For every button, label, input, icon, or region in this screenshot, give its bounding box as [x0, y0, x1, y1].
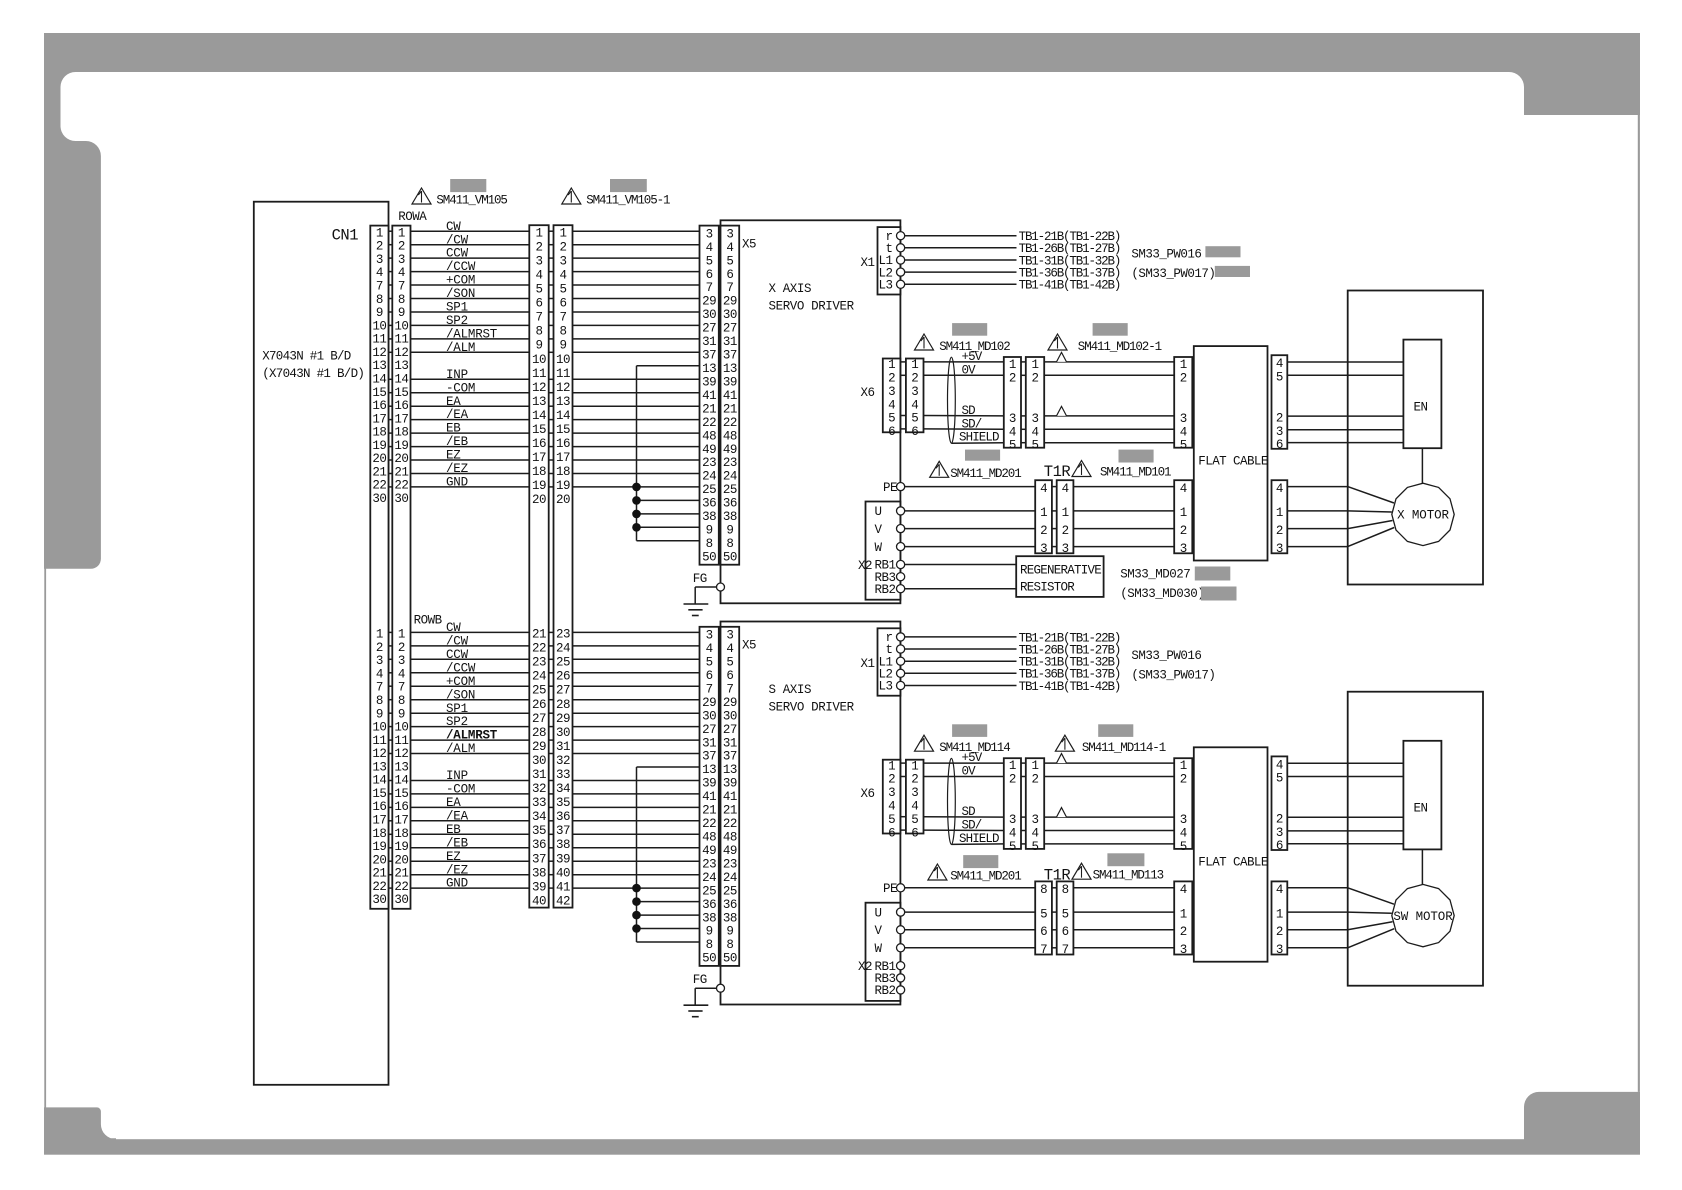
svg-text:5: 5 — [888, 813, 895, 827]
pin RB1 terminal circle — [897, 560, 905, 568]
svg-text:12: 12 — [394, 747, 408, 761]
svg-text:4: 4 — [1180, 482, 1187, 496]
svg-text:8: 8 — [706, 537, 713, 551]
svg-text:5: 5 — [1062, 907, 1069, 921]
cable shield ellipse — [948, 357, 956, 443]
svg-text:9: 9 — [706, 524, 713, 538]
wire flat-cable pin 5 to encoder EN — [1287, 374, 1403, 376]
svg-text:10: 10 — [556, 353, 570, 367]
wire V to T1R-2 — [905, 528, 1036, 530]
wire T1R joint stub pin 5 — [1052, 911, 1057, 913]
connector flat-cable right column, encoder rows (S axis) — [1272, 756, 1288, 853]
junction dot X5-9 tie — [632, 523, 641, 532]
wire -COM (CN1 to X5-41, X axis) — [389, 392, 700, 394]
wire flat-cable pin 4 to encoder EN — [1287, 361, 1403, 363]
svg-text:1: 1 — [888, 358, 895, 372]
wire cable pin 3 to flat-cable column — [1044, 415, 1174, 417]
svg-text:31: 31 — [702, 335, 716, 349]
connector encoder-cable joint plug column (X axis) — [1004, 357, 1021, 453]
svg-text:3: 3 — [911, 786, 918, 800]
wire stub X6-5 — [900, 415, 906, 417]
svg-text:8: 8 — [376, 694, 383, 708]
svg-text:/SON: /SON — [446, 688, 475, 702]
wire T1R pin 2 to flat-cable column — [1073, 528, 1174, 530]
wire cable pin 4 to flat-cable column — [1044, 428, 1174, 430]
svg-text:/CW: /CW — [446, 233, 469, 247]
svg-text:9: 9 — [706, 925, 713, 939]
svg-text:2: 2 — [398, 641, 405, 655]
svg-text:38: 38 — [532, 866, 546, 880]
svg-text:16: 16 — [532, 437, 546, 451]
svg-text:2: 2 — [398, 240, 405, 254]
motor SW MOTOR (12-sided circle) — [1392, 884, 1454, 946]
svg-text:3: 3 — [1276, 943, 1283, 957]
svg-text:5: 5 — [706, 656, 713, 670]
svg-text:EB: EB — [446, 823, 461, 837]
svg-text:5: 5 — [911, 813, 918, 827]
svg-text:6: 6 — [911, 425, 918, 439]
svg-text:13: 13 — [372, 359, 386, 373]
wire /EA (CN1 to X5-22, X axis) — [389, 419, 700, 421]
svg-text:1: 1 — [1276, 506, 1283, 520]
svg-text:2: 2 — [376, 240, 383, 254]
PE terminal circle (S axis) — [897, 884, 905, 892]
wire /SON (CN1 to X5-29, X axis) — [389, 298, 700, 300]
wire /CCW (CN1 to X5-6, X axis) — [389, 271, 700, 273]
svg-text:40: 40 — [532, 894, 546, 908]
svg-text:12: 12 — [532, 381, 546, 395]
svg-text:EZ: EZ — [446, 449, 461, 463]
svg-text:SD/: SD/ — [962, 417, 982, 431]
svg-text:SP1: SP1 — [446, 301, 468, 315]
svg-text:7: 7 — [1040, 943, 1047, 957]
svg-text:SM411_MD114-1: SM411_MD114-1 — [1082, 741, 1166, 755]
svg-text:15: 15 — [394, 787, 408, 801]
connector ROWA/ROWB pin column (tall rect) — [392, 226, 410, 909]
pin RB3 terminal circle — [897, 573, 905, 581]
svg-text:L3: L3 — [878, 279, 892, 293]
wire T1R joint stub pin 4 — [1052, 486, 1057, 488]
svg-text:10: 10 — [372, 319, 386, 333]
svg-text:17: 17 — [532, 451, 546, 465]
wire SD/ (X6-6 to cable pin 4) — [924, 829, 1004, 831]
junction dot X5-36 tie — [632, 496, 641, 505]
svg-text:8: 8 — [559, 325, 566, 339]
svg-text:X1: X1 — [861, 256, 875, 270]
svg-text:15: 15 — [556, 423, 570, 437]
pin X1-L3 terminal circle — [897, 681, 905, 689]
svg-text:19: 19 — [394, 439, 408, 453]
pin W terminal circle — [897, 543, 905, 551]
svg-text:1: 1 — [376, 226, 383, 240]
svg-text:33: 33 — [532, 796, 546, 810]
redacted part number box (SM33_PW017) — [1215, 266, 1250, 277]
wire GND (CN1 to X5-25, X axis) — [389, 486, 700, 488]
svg-text:3: 3 — [398, 253, 405, 267]
warning triangle for SM411_MD101 — [1072, 461, 1091, 477]
wire V to T1R-6 — [905, 929, 1036, 931]
wire stub X6-6 — [900, 829, 906, 831]
svg-text:38: 38 — [556, 838, 570, 852]
svg-text:3: 3 — [888, 786, 895, 800]
connector X6 socket pin column (S axis) — [883, 759, 901, 840]
svg-text:FG: FG — [693, 572, 707, 586]
svg-text:38: 38 — [702, 510, 716, 524]
redacted part number box above SM411_MD114 — [952, 724, 987, 737]
svg-text:V: V — [875, 523, 883, 537]
svg-text:SP2: SP2 — [446, 314, 468, 328]
connector X6 cable plug pin column (S axis) — [906, 759, 924, 840]
connector CN1 pin-number column (tall rect) — [370, 226, 388, 909]
wire U to T1R-1 — [905, 510, 1036, 512]
svg-text:20: 20 — [372, 452, 386, 466]
wire tie net X5-13/25/36/38/9/8 vertical (S axis) — [636, 767, 638, 942]
wire stub X6-2 — [900, 776, 906, 778]
svg-text:3: 3 — [888, 385, 895, 399]
svg-text:29: 29 — [702, 696, 716, 710]
wire T1R pin 8 to flat-cable column — [1073, 887, 1174, 889]
svg-text:2: 2 — [1276, 411, 1283, 425]
svg-text:/EB: /EB — [446, 435, 469, 449]
svg-text:23: 23 — [532, 656, 546, 670]
svg-text:22: 22 — [532, 642, 546, 656]
svg-text:4: 4 — [1276, 357, 1283, 371]
svg-text:18: 18 — [372, 426, 386, 440]
svg-text:19: 19 — [372, 439, 386, 453]
svg-text:8: 8 — [706, 938, 713, 952]
svg-text:CW: CW — [446, 621, 461, 635]
svg-text:3: 3 — [1276, 542, 1283, 556]
svg-text:SD: SD — [962, 404, 976, 418]
cable shield ellipse — [948, 758, 956, 844]
pin X1-t terminal circle — [897, 645, 905, 653]
wire X1-t to TB1-26B(TB1-27B) — [905, 247, 1017, 249]
FG terminal circle (X axis) — [717, 583, 725, 591]
svg-text:4: 4 — [1062, 482, 1069, 496]
wire /EB (CN1 to X5-49, X axis) — [389, 446, 700, 448]
svg-text:31: 31 — [723, 335, 737, 349]
svg-text:22: 22 — [372, 479, 386, 493]
svg-text:13: 13 — [394, 359, 408, 373]
wire flat-cable pin 3 to encoder EN — [1287, 830, 1403, 832]
svg-text:17: 17 — [394, 814, 408, 828]
svg-text:21: 21 — [532, 628, 546, 642]
svg-text:31: 31 — [702, 736, 716, 750]
svg-text:48: 48 — [723, 831, 737, 845]
junction dot X5-25 tie — [632, 884, 641, 893]
wire T1R pin 3 to flat-cable column — [1073, 546, 1174, 548]
svg-text:7: 7 — [535, 311, 542, 325]
svg-text:8: 8 — [535, 325, 542, 339]
svg-text:13: 13 — [702, 763, 716, 777]
svg-text:14: 14 — [532, 409, 546, 423]
wire /EB (CN1 to X5-49, S axis) — [389, 847, 700, 849]
svg-text:U: U — [875, 906, 882, 920]
svg-text:15: 15 — [532, 423, 546, 437]
svg-text:4: 4 — [1276, 883, 1283, 897]
svg-text:37: 37 — [556, 824, 570, 838]
svg-text:3: 3 — [726, 227, 733, 241]
pin RB2 terminal circle — [897, 585, 905, 593]
svg-text:5: 5 — [1180, 439, 1187, 453]
redacted part number box above SM411_MD201 — [963, 855, 998, 868]
svg-text:9: 9 — [376, 707, 383, 721]
svg-text:/EZ: /EZ — [446, 863, 469, 877]
connector CN1 pin-number column (ROWA section) — [372, 226, 386, 506]
wire stub to X5-38 — [637, 914, 700, 916]
wire EZ (CN1 to X5-23, S axis) — [389, 860, 700, 862]
svg-text:1: 1 — [1040, 506, 1047, 520]
svg-text:25: 25 — [556, 656, 570, 670]
wire SP1 (CN1 to X5-30, X axis) — [389, 311, 700, 313]
svg-text:GND: GND — [446, 476, 468, 490]
svg-text:4: 4 — [1040, 482, 1047, 496]
svg-text:S AXIS: S AXIS — [769, 683, 812, 697]
wire joint stub cable pin 5 — [1021, 843, 1026, 845]
svg-text:1: 1 — [911, 358, 918, 372]
svg-text:CCW: CCW — [446, 247, 469, 261]
svg-text:1: 1 — [888, 759, 895, 773]
svg-text:SM33_PW016: SM33_PW016 — [1131, 649, 1201, 663]
svg-text:27: 27 — [532, 712, 546, 726]
svg-text:20: 20 — [394, 452, 408, 466]
svg-text:1: 1 — [376, 628, 383, 642]
svg-text:12: 12 — [556, 381, 570, 395]
svg-text:49: 49 — [723, 443, 737, 457]
svg-text:/ALMRST: /ALMRST — [446, 729, 498, 743]
ground symbol (S axis) — [684, 1005, 709, 1017]
svg-text:FG: FG — [693, 973, 707, 987]
svg-text:11: 11 — [556, 367, 570, 381]
svg-text:29: 29 — [723, 696, 737, 710]
svg-text:10: 10 — [372, 721, 386, 735]
svg-text:2: 2 — [911, 372, 918, 386]
svg-text:RESISTOR: RESISTOR — [1020, 581, 1075, 595]
svg-text:26: 26 — [556, 670, 570, 684]
wire motor power pin 1 — [1287, 912, 1392, 913]
svg-text:23: 23 — [702, 857, 716, 871]
wire EN to motor (S axis) — [1421, 849, 1423, 884]
svg-text:SD: SD — [962, 805, 976, 819]
svg-text:SW MOTOR: SW MOTOR — [1393, 910, 1453, 924]
warning triangle for SM411_MD102-1 — [1048, 334, 1067, 350]
svg-text:30: 30 — [372, 893, 386, 907]
svg-text:40: 40 — [556, 866, 570, 880]
svg-text:2: 2 — [559, 240, 566, 254]
pin X1-L1 terminal circle — [897, 657, 905, 665]
redacted part number box above SM411_MD101 — [1119, 450, 1154, 463]
svg-text:4: 4 — [888, 398, 895, 412]
svg-text:27: 27 — [723, 322, 737, 336]
connector VM105-1 cable plug column (tall rect) — [554, 225, 573, 907]
svg-text:REGENERATIVE: REGENERATIVE — [1020, 564, 1101, 578]
wire cable pin 2 to flat-cable column — [1044, 776, 1174, 778]
wire INP (CN1 to X5-39, X axis) — [389, 378, 700, 380]
svg-text:19: 19 — [372, 840, 386, 854]
svg-text:30: 30 — [723, 709, 737, 723]
wire EB (CN1 to X5-48, X axis) — [389, 432, 700, 434]
wire cable pin 2 to flat-cable column — [1044, 374, 1174, 376]
wire SHIELD (shield to cable pin 5) — [951, 843, 1003, 846]
connector encoder-cable joint socket column (X axis) — [1026, 357, 1044, 453]
svg-text:X2: X2 — [858, 960, 872, 974]
svg-text:38: 38 — [723, 510, 737, 524]
svg-text:T1R: T1R — [1044, 867, 1071, 885]
wire flat-cable pin 4 to encoder EN — [1287, 762, 1403, 764]
wire EN to motor (X axis) — [1421, 448, 1423, 483]
pin X1-r terminal circle — [897, 633, 905, 641]
redacted part number box above SM411_MD201 — [965, 450, 1000, 461]
wire motor power pin 2 — [1287, 521, 1392, 529]
svg-text:15: 15 — [372, 787, 386, 801]
wire cable pin 1 to flat-cable column — [1044, 361, 1174, 363]
wire CW (CN1 to X5-3, X axis) — [389, 230, 700, 232]
svg-text:29: 29 — [702, 295, 716, 309]
svg-text:14: 14 — [372, 774, 386, 788]
svg-text:U: U — [875, 505, 882, 519]
svg-text:3: 3 — [1180, 813, 1187, 827]
svg-text:22: 22 — [394, 880, 408, 894]
svg-text:L3: L3 — [878, 680, 892, 694]
svg-text:/EA: /EA — [446, 809, 469, 823]
wire /ALMRST (CN1 to X5-31, X axis) — [389, 338, 700, 340]
svg-text:8: 8 — [376, 293, 383, 307]
host board connector CN1 box (X7043N B/D) — [254, 202, 389, 1085]
svg-text:24: 24 — [702, 871, 716, 885]
svg-text:28: 28 — [556, 698, 570, 712]
wire joint stub cable pin 4 — [1021, 428, 1026, 430]
wire stub to X5-9 — [637, 928, 700, 930]
twisted-pair mark on cable pin 3 — [1057, 808, 1067, 818]
svg-text:39: 39 — [702, 777, 716, 791]
svg-text:39: 39 — [702, 376, 716, 390]
svg-text:3: 3 — [1009, 813, 1016, 827]
svg-text:30: 30 — [556, 726, 570, 740]
svg-text:12: 12 — [372, 747, 386, 761]
connector ROWA pin column — [394, 226, 408, 506]
wire stub X6-6 — [900, 428, 906, 430]
wire flat-cable pin 2 to encoder EN — [1287, 816, 1403, 818]
svg-text:37: 37 — [702, 750, 716, 764]
svg-text:3: 3 — [706, 227, 713, 241]
svg-text:5: 5 — [1276, 772, 1283, 786]
connector X6 socket pin column (X axis) — [883, 358, 901, 439]
svg-text:5: 5 — [1276, 371, 1283, 385]
svg-text:16: 16 — [372, 800, 386, 814]
svg-text:21: 21 — [372, 867, 386, 881]
svg-text:37: 37 — [532, 852, 546, 866]
wire /EZ (CN1 to X5-24, S axis) — [389, 874, 700, 876]
svg-text:7: 7 — [726, 682, 733, 696]
svg-text:CW: CW — [446, 220, 461, 234]
svg-text:1: 1 — [1009, 759, 1016, 773]
svg-text:6: 6 — [559, 297, 566, 311]
wire T1R joint stub pin 6 — [1052, 929, 1057, 931]
wire T1R joint stub pin 1 — [1052, 510, 1057, 512]
warning triangle for SM411_MD114 — [915, 735, 934, 751]
wire joint stub cable pin 2 — [1021, 776, 1026, 778]
warning triangle for SM411_MD201 — [930, 461, 949, 477]
connector X5 cable-side pin column (S axis) — [700, 627, 719, 966]
wire joint stub cable pin 1 — [1021, 361, 1026, 363]
connector T1R socket column (X axis) — [1057, 480, 1074, 556]
svg-text:1: 1 — [1180, 358, 1187, 372]
wire +COM (CN1 to X5-7, X axis) — [389, 284, 700, 286]
svg-text:4: 4 — [1276, 758, 1283, 772]
warning triangle for SM411_VM105 — [412, 188, 431, 204]
svg-text:37: 37 — [723, 349, 737, 363]
svg-text:4: 4 — [726, 642, 733, 656]
pin U terminal circle — [897, 507, 905, 515]
pin X1-L2 terminal circle — [897, 669, 905, 677]
svg-text:INP: INP — [446, 368, 468, 382]
wire EA (CN1 to X5-21, S axis) — [389, 806, 700, 808]
wire motor power pin 2 — [1287, 922, 1392, 930]
X axis servo driver box — [721, 220, 901, 603]
pin V terminal circle — [897, 525, 905, 533]
redacted part number box above SM411_MD102 — [952, 323, 987, 336]
wire joint stub cable pin 2 — [1021, 374, 1026, 376]
svg-text:48: 48 — [702, 831, 716, 845]
svg-text:2: 2 — [1276, 925, 1283, 939]
svg-text:13: 13 — [702, 362, 716, 376]
svg-text:12: 12 — [372, 346, 386, 360]
svg-text:SERVO DRIVER: SERVO DRIVER — [769, 299, 855, 313]
svg-text:2: 2 — [1276, 524, 1283, 538]
svg-text:7: 7 — [559, 311, 566, 325]
wire T1R joint stub pin 8 — [1052, 887, 1057, 889]
wire +5V (X6-1 to cable pin 1) — [924, 762, 1004, 764]
svg-text:30: 30 — [702, 308, 716, 322]
svg-text:3: 3 — [1031, 412, 1038, 426]
junction dot X5-25 tie — [632, 483, 641, 492]
svg-text:6: 6 — [726, 669, 733, 683]
svg-text:6: 6 — [1276, 839, 1283, 853]
svg-text:25: 25 — [702, 483, 716, 497]
svg-text:22: 22 — [723, 416, 737, 430]
svg-text:16: 16 — [372, 399, 386, 413]
svg-text:4: 4 — [1180, 883, 1187, 897]
svg-text:1: 1 — [1180, 759, 1187, 773]
pin X1-L3 terminal circle — [897, 280, 905, 288]
svg-text:30: 30 — [723, 308, 737, 322]
connector flat-cable right column, power rows (X axis) — [1272, 480, 1288, 556]
wire CCW (CN1 to X5-5, S axis) — [389, 658, 700, 660]
svg-text:17: 17 — [556, 451, 570, 465]
wire T1R pin 5 to flat-cable column — [1073, 911, 1174, 913]
svg-text:25: 25 — [702, 884, 716, 898]
connector flat-cable right column, power rows (S axis) — [1272, 881, 1288, 957]
svg-text:24: 24 — [532, 670, 546, 684]
svg-text:CN1: CN1 — [332, 227, 359, 245]
svg-text:20: 20 — [556, 493, 570, 507]
svg-text:21: 21 — [702, 804, 716, 818]
svg-text:-COM: -COM — [446, 381, 475, 395]
svg-text:/EZ: /EZ — [446, 462, 469, 476]
svg-text:2: 2 — [911, 773, 918, 787]
svg-text:41: 41 — [723, 790, 737, 804]
svg-text:37: 37 — [702, 349, 716, 363]
svg-text:6: 6 — [1040, 925, 1047, 939]
svg-text:39: 39 — [723, 376, 737, 390]
svg-text:/EB: /EB — [446, 836, 469, 850]
redacted part number box (SM33_MD030) — [1201, 587, 1237, 601]
svg-text:4: 4 — [726, 241, 733, 255]
redacted part number box above SM411_MD113 — [1107, 853, 1144, 866]
wire T1R joint stub pin 7 — [1052, 947, 1057, 949]
svg-text:+COM: +COM — [446, 675, 475, 689]
svg-text:3: 3 — [706, 629, 713, 643]
